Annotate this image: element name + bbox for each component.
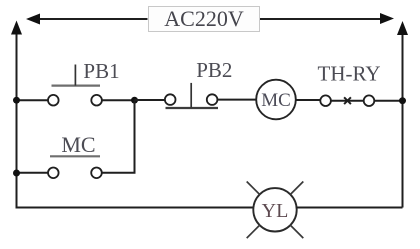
contactor coil MC [256,80,296,120]
svg-text:PB1: PB1 [83,59,119,83]
pushbutton PB1 (normally open) [48,65,102,106]
wire: PB2 to MC coil [217,99,256,101]
lamp YL [247,182,304,239]
left supply rail with up arrow [11,21,22,208]
wire: bottom left segment (rail to lamp) [17,206,254,209]
thermal overload relay contact TH-RY [320,95,374,106]
wire: MC contact up to node A [102,100,135,173]
label box AC220V [149,6,260,31]
wire: bottom right segment (lamp to right rail) [297,207,403,209]
pushbutton PB2 (normally closed) [165,83,218,108]
node: junction left rail / holding branch [13,170,20,177]
svg-text:AC220V: AC220V [164,6,244,31]
svg-text:YL: YL [262,200,289,222]
wire: left rail to PB1 [17,99,49,101]
node A: junction after PB1 (holding branch tap) [131,97,138,104]
wire: MC coil to TH-RY [296,99,321,101]
svg-text:TH-RY: TH-RY [318,62,381,86]
svg-text:MC: MC [61,132,95,157]
right supply rail with up arrow [397,21,408,208]
wire: left rail to MC auxiliary contact [17,172,49,174]
wire: node A to PB2 [135,99,165,101]
dimension line AC220V span (double-headed arrow) [26,13,394,25]
svg-text:PB2: PB2 [196,58,232,82]
wire: PB1 to node A [102,99,135,101]
svg-text:MC: MC [261,90,291,111]
node: junction left rail / main row [13,97,20,104]
node: junction right rail / main row [399,97,406,104]
auxiliary contact MC (normally open, holding) [48,156,102,178]
wire: TH-RY to right rail [374,100,402,102]
